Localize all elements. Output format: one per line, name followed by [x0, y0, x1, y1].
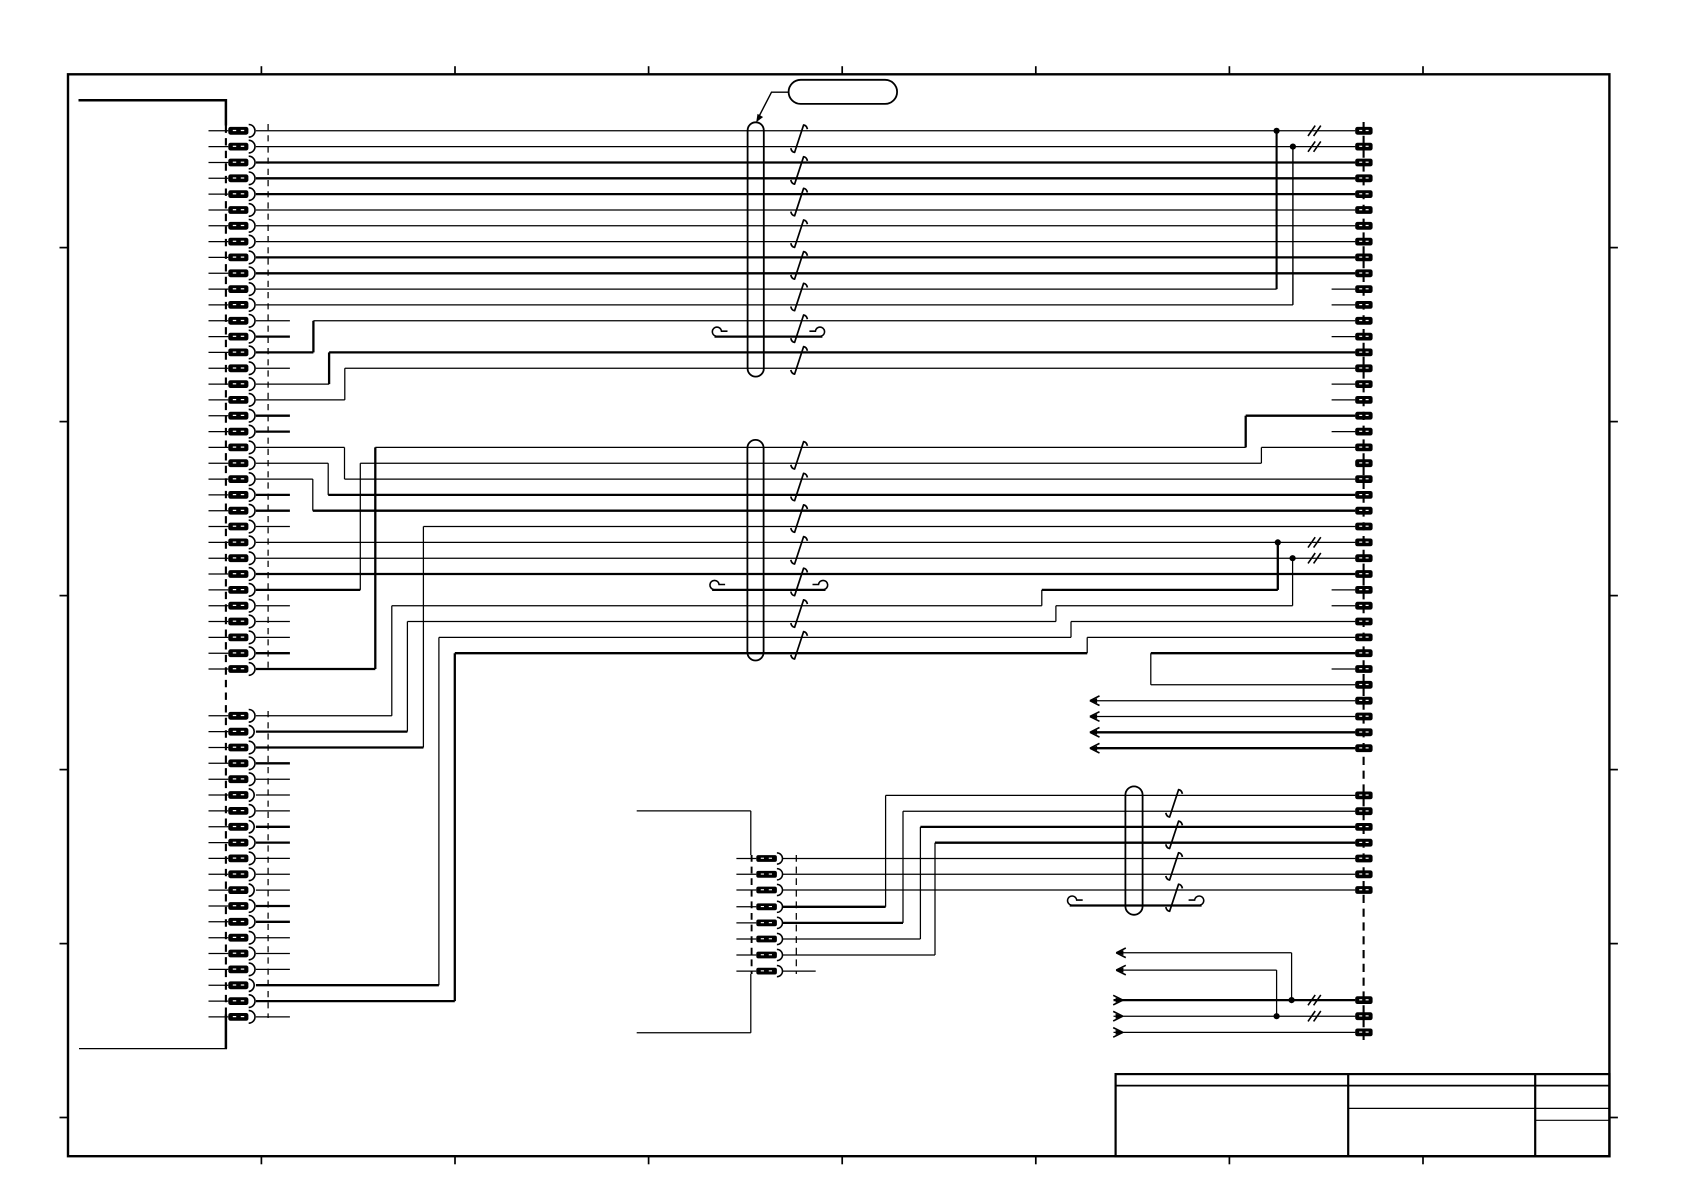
wire band row 44 to J2 pin 44: [935, 842, 1355, 844]
connector J1 pin 10: [209, 267, 256, 280]
riser row 31 to junction row 28: [1292, 558, 1294, 606]
riser to J2 pin 19: [1245, 416, 1247, 448]
right border zone tick 3: [1609, 595, 1618, 597]
bundle W2 pair slash 1: [791, 442, 808, 469]
wire net N28 (row 28 full): [256, 557, 1355, 559]
bottom border zone tick 7: [1422, 1156, 1424, 1164]
connector J1 body dashed line: [225, 126, 227, 1015]
wire lower B: [1117, 969, 1277, 971]
arrowhead row 40: [1090, 743, 1100, 753]
riser J3 pin 7 to band row 44: [934, 843, 936, 955]
connector J1 pin 3: [209, 156, 256, 169]
connector J1 pin 21: [209, 441, 256, 454]
stub at J1 pin 50: [256, 937, 290, 939]
connector J1 pin 30: [209, 584, 256, 597]
stub at J1 pin 52: [256, 968, 290, 970]
bundle W2 pair slash 4: [791, 537, 808, 564]
connector J2 pin 44: [1355, 839, 1372, 847]
wire from J3 pin 5: [782, 922, 903, 924]
connector J2 pin 5: [1355, 190, 1372, 198]
twist mark row 28: [1308, 553, 1321, 563]
connector J2 pin 35: [1355, 665, 1372, 673]
left border zone tick 5: [60, 943, 69, 945]
stub at J3 pin 8: [782, 970, 815, 972]
stub at J1 pin 32: [256, 621, 290, 623]
connector J1 pin 44: [209, 836, 256, 849]
wire row 31 east segment: [1056, 605, 1293, 607]
connector J2 pin 3: [1355, 159, 1372, 167]
stub at J2 pin 12: [1332, 304, 1356, 306]
stub at J1 pin 46: [256, 873, 290, 875]
wire net N18 from J1 pin 18: [256, 399, 345, 401]
connector J1 pin 1: [209, 125, 256, 138]
wire net N2 (row 2 full): [256, 146, 1355, 148]
connector J1 pin 51: [209, 947, 256, 960]
connector J3 pin 5: [736, 917, 782, 928]
connector J1 pin 17: [209, 378, 256, 391]
stub at J1 pin 42: [256, 810, 290, 812]
connector J2 pin 41: [1355, 792, 1372, 800]
bundle W3 pair slash 4: [1166, 884, 1183, 911]
wire from J3 pin 6: [782, 938, 920, 940]
title block divider 2: [1534, 1074, 1536, 1156]
stub at J1 pin 26: [256, 526, 290, 528]
stub at J1 pin 43: [256, 826, 290, 828]
jog riser net N21 down to row 23: [344, 447, 346, 479]
shield pigtail wire W2 (row 30): [710, 580, 828, 590]
connector J1 pin 34: [209, 647, 255, 660]
stub at J1 pin 25: [256, 510, 290, 512]
staircase riser row 34 to row 33: [1086, 637, 1088, 653]
bundle W1 pair slash 3: [791, 188, 808, 216]
bus exit wire bottom-left: [79, 1048, 227, 1050]
wire net N13 east segment (row 13): [313, 320, 1355, 322]
connector J1 pin 12: [209, 299, 256, 312]
top border zone tick 1: [260, 66, 262, 74]
connector J1 pin 20: [209, 425, 256, 438]
connector J1 pin 23: [209, 473, 256, 486]
wire row 34 west segment (from J1 pin 53): [455, 652, 1087, 654]
stub at J2 pin 20: [1332, 431, 1356, 433]
connector J2 pin 50: [1355, 1029, 1372, 1037]
wire net N15 from J1 pin 15: [256, 351, 314, 353]
stub at J1 pin 49: [256, 921, 290, 923]
stub at J1 pin 13: [256, 320, 290, 322]
wire out E to J2 pin 50: [1114, 1031, 1356, 1033]
connector J1 pin 11: [209, 283, 256, 296]
wire stub upper-left of J3: [637, 810, 751, 812]
connector J2 pin 43: [1355, 823, 1372, 831]
bundle W1 pair slash 5: [791, 252, 808, 280]
riser J1 pin 54 up to row 34: [454, 653, 456, 1001]
junction dot row 2: [1290, 144, 1296, 150]
stub at J1 pin 55: [256, 1016, 290, 1018]
wire row 32 west segment (from J1 pin 37): [407, 621, 1056, 623]
J3 shield bus left vertical upper segment: [750, 811, 752, 855]
connector J2 pin 2: [1355, 143, 1372, 151]
wire row 26 east segment to J2 pin 26: [423, 526, 1355, 528]
bundle W2 pair slash 2: [791, 473, 808, 500]
connector J2 pin 25: [1355, 507, 1372, 515]
arrowhead row 37: [1090, 696, 1100, 706]
connector J1 pin 15: [209, 346, 256, 359]
twist mark row 1: [1308, 126, 1321, 136]
wire lower A: [1117, 952, 1292, 954]
connector J1 pin 22: [209, 457, 256, 470]
connector J2 pin 38: [1355, 713, 1372, 721]
connector J3 inner dashed line: [795, 855, 797, 974]
arrowhead lower A: [1116, 948, 1126, 958]
connector J2 pin 4: [1355, 174, 1372, 182]
riser J3 pin 5 to band row 42: [902, 811, 904, 923]
staircase riser row 32 to row 31: [1055, 606, 1057, 622]
connector J2 pin 12: [1355, 301, 1372, 309]
wire net N15 east segment (row 15): [329, 351, 1355, 353]
connector J3 pin 7: [736, 949, 782, 960]
bottom border zone tick 3: [648, 1156, 650, 1164]
connector J1 pin 49: [209, 916, 255, 929]
wire net N12 (row 12 to riser): [256, 304, 1293, 306]
connector J2 pin 46: [1355, 870, 1372, 878]
wire net N17 from J1 pin 17: [256, 383, 329, 385]
wire net N1 (row 1 full): [256, 130, 1355, 132]
twist mark net C: [1308, 995, 1321, 1005]
connector J1 pin 5: [209, 188, 255, 201]
stub at J1 pin 34: [256, 652, 290, 654]
right border zone tick 4: [1609, 769, 1618, 771]
connector J2 pin 30: [1355, 586, 1372, 594]
cable bundle W1 oval: [748, 122, 764, 376]
connector J1 pin 48: [209, 900, 255, 913]
cable bundle W3 oval: [1125, 786, 1142, 914]
riser net N11 up to row 1: [1276, 131, 1278, 289]
connector J3 body dashed line: [751, 855, 753, 974]
connector J2 pin 39: [1355, 728, 1372, 736]
stub at J2 pin 17: [1332, 383, 1356, 385]
arrowhead out D: [1113, 1011, 1123, 1021]
stub at J1 pin 48: [256, 905, 290, 907]
connector J2 pin 22: [1355, 459, 1372, 467]
connector J1 pin 52: [209, 963, 256, 976]
bundle W1 pair slash 1: [791, 125, 808, 152]
wire net N11 (row 11 to riser): [256, 288, 1277, 290]
bundle W1 pair slash 4: [791, 220, 808, 247]
stub at J2 pin 35: [1332, 668, 1356, 670]
connector J1 pin 31: [209, 599, 256, 612]
riser J3 pin 6 to band row 43: [919, 827, 921, 939]
wire row 34 east segment to J2 pin 34: [1151, 652, 1356, 654]
wire row 24 east segment to J2 pin 24: [328, 494, 1355, 496]
connector J2 pin 49: [1355, 1012, 1372, 1020]
bottom border zone tick 4: [841, 1156, 843, 1164]
junction dot row 28: [1290, 555, 1296, 561]
title block right cell rule 2: [1535, 1119, 1609, 1121]
right border zone tick 6: [1609, 1117, 1618, 1119]
bundle W2 pair slash 3: [791, 505, 808, 532]
wire J3 pin 3 to J2 pin 47: [782, 889, 1355, 891]
stub at J1 pin 20: [256, 430, 290, 432]
connector J1 pin 16: [209, 362, 256, 375]
bus entry wire top-left: [79, 99, 228, 102]
riser lower B to junction: [1276, 970, 1278, 1016]
stub at J1 pin 41: [256, 794, 290, 796]
bundle W3 pair slash 3: [1166, 853, 1183, 880]
top border zone tick 3: [648, 66, 650, 74]
wire net N3 (row 3 full): [256, 161, 1355, 163]
wire net N17 east segment (row 16): [345, 367, 1356, 369]
connector J2 pin 11: [1355, 285, 1372, 293]
cable bundle W2 oval: [747, 440, 763, 661]
connector J2 pin 45: [1355, 855, 1372, 863]
connector J2 pin 13: [1355, 317, 1372, 325]
wire stub lower-left of J3: [637, 1032, 751, 1034]
wire band row 42 to J2 pin 42: [903, 810, 1355, 812]
wire row 37 to J2 pin 37: [1091, 700, 1356, 702]
wire J3 pin 2 to J2 pin 46: [782, 873, 1355, 875]
shield pigtail wire W3: [1068, 896, 1204, 906]
riser to J2 pin 21: [1260, 447, 1262, 463]
wire row 38 to J2 pin 38: [1091, 716, 1356, 718]
connector J1 pin 54: [209, 995, 256, 1008]
riser row 30 to junction row 27: [1277, 542, 1279, 590]
U-link riser rows 34-36: [1150, 653, 1152, 685]
wire net N10 (row 10 full): [256, 272, 1355, 274]
connector J1 pin 9: [209, 251, 256, 264]
jog riser net N22 down to row 24: [327, 463, 329, 495]
wire from J1 pin 54: [256, 1000, 455, 1002]
bundle W3 pair slash 1: [1166, 790, 1183, 817]
wire net N7 (row 7 full): [256, 225, 1355, 227]
stub at J2 pin 14: [1332, 336, 1356, 338]
stub at J1 pin 45: [256, 857, 290, 859]
junction dot row 27: [1275, 539, 1281, 545]
connector J1 pin 27: [209, 536, 256, 549]
connector J1 pin 50: [209, 931, 256, 944]
connector J1 pin 47: [209, 884, 255, 897]
bottom border zone tick 1: [260, 1156, 262, 1164]
top border zone tick 4: [841, 66, 843, 74]
connector J3 pin 1: [736, 853, 782, 864]
stub at J1 pin 33: [256, 636, 290, 638]
connector J2 pin 21: [1355, 444, 1372, 452]
wire trunk row 21 (from J1 pin 35): [375, 446, 1245, 448]
wire net N19 east segment to J2 pin 19: [1246, 415, 1356, 417]
connector J1 pin 42: [209, 805, 256, 818]
wire row 25 east segment to J2 pin 25: [313, 510, 1356, 512]
wire from J3 pin 4: [782, 906, 885, 908]
connector J2 pin 26: [1355, 523, 1372, 531]
connector J1 pin 53: [209, 979, 255, 992]
title block middle cell rule: [1348, 1107, 1535, 1109]
connector J1 pin 18: [209, 394, 256, 407]
stub at J2 pin 11: [1332, 288, 1356, 290]
jog riser net N18 to row 16: [344, 368, 346, 400]
connector J1 bottom exit segment: [225, 1015, 228, 1049]
bundle W1 pair slash 2: [791, 157, 808, 184]
callout leader line: [759, 92, 788, 116]
wire band row 41 to J2 pin 41: [886, 794, 1356, 796]
stub at J1 pin 24: [256, 494, 290, 496]
title block right cell rule 1: [1535, 1107, 1609, 1109]
connector J1 pin 33: [209, 631, 256, 644]
connector J1 pin 13: [209, 315, 256, 328]
stub at J1 pin 14: [256, 335, 290, 337]
connector J3 pin 2: [736, 869, 782, 880]
connector J2 pin 29: [1355, 570, 1372, 578]
wire row 39 to J2 pin 39: [1091, 731, 1356, 733]
connector J2 pin 15: [1355, 349, 1372, 357]
right border zone tick 1: [1609, 247, 1618, 249]
staircase riser row 33 to row 32: [1070, 622, 1072, 638]
wire net N5 (row 5 full): [256, 193, 1355, 195]
shield pigtail wire W1 (row 14): [712, 327, 824, 337]
left border zone tick 1: [60, 247, 69, 249]
wire row 21 east segment to J2 pin 21: [1261, 446, 1355, 448]
bundle W2 pair slash 5: [791, 568, 808, 596]
connector J2 pin 20: [1355, 428, 1372, 436]
wire net N27 (row 27 full): [256, 541, 1355, 543]
wire net N9 (row 9 full): [256, 256, 1355, 258]
connector J1 pin 6: [209, 204, 256, 217]
title block outer box: [1116, 1074, 1610, 1156]
stub at J1 pin 40: [256, 778, 290, 780]
stub at J1 pin 44: [256, 841, 290, 843]
connector J2 pin 40: [1355, 744, 1372, 752]
top border zone tick 7: [1422, 66, 1424, 74]
connector J2 pin 32: [1355, 618, 1372, 626]
twist mark row 27: [1308, 537, 1321, 547]
stub at J1 pin 19: [256, 415, 290, 417]
riser net N12 up to row 2: [1292, 147, 1294, 305]
connector J1 pin 4: [209, 172, 256, 185]
wire net N6 (row 6 full): [256, 209, 1355, 211]
staircase riser row 31 to row 30: [1041, 590, 1043, 606]
connector J3 pin 3: [736, 884, 782, 895]
wire J3 pin 1 to J2 pin 45: [782, 858, 1355, 860]
wire net N4 (row 4 full): [256, 177, 1355, 179]
wire net N8 (row 8 full): [256, 241, 1355, 243]
arrowhead out C: [1113, 995, 1123, 1005]
connector J2 pin 8: [1355, 238, 1372, 246]
connector J1 pin 45: [209, 852, 256, 865]
callout leader arrowhead: [756, 114, 763, 122]
connector J2 pin 28: [1355, 554, 1372, 562]
wire out D to J2 pin 49: [1114, 1015, 1356, 1017]
connector J2 pin 17: [1355, 380, 1372, 388]
J3 shield bus left vertical lower segment: [750, 974, 752, 1033]
connector J2 pin 34: [1355, 649, 1372, 657]
connector J2 pin 24: [1355, 491, 1372, 499]
wire from J1 pin 53: [256, 984, 439, 986]
wire from J1 pin 36: [256, 715, 392, 717]
connector J2 pin 47: [1355, 886, 1372, 894]
title block divider 1: [1347, 1074, 1349, 1156]
wire from J3 pin 7: [782, 954, 935, 956]
jog riser net N17 to row 15: [328, 352, 330, 384]
riser J1 pin 38 up to row 26: [422, 527, 424, 748]
connector J1 pin 55: [209, 1011, 256, 1024]
connector J2 pin 14: [1355, 333, 1372, 341]
connector J1 pin 39: [209, 757, 256, 770]
top border zone tick 5: [1035, 66, 1037, 74]
bottom border zone tick 2: [454, 1156, 456, 1164]
stub at J2 pin 30: [1332, 589, 1356, 591]
connector J1 pin 14: [209, 330, 256, 343]
bundle W1 pair slash 8: [791, 347, 808, 375]
connector J2 pin 16: [1355, 364, 1372, 372]
stub at J1 pin 16: [256, 367, 290, 369]
connector J2 pin 48: [1355, 996, 1372, 1004]
bundle W1 pair slash 6: [791, 283, 808, 310]
connector J3 pin 6: [736, 933, 782, 944]
top border zone tick 2: [454, 66, 456, 74]
bundle W2 pair slash 6: [791, 600, 808, 627]
connector J1 top entry segment: [225, 99, 228, 126]
left border zone tick 3: [60, 595, 69, 597]
connector J1 pin 32: [209, 615, 256, 628]
riser net N35 up to trunk row 21: [374, 447, 376, 669]
wire net N23 from J1 pin 23: [256, 478, 313, 480]
right border zone tick 5: [1609, 943, 1618, 945]
junction dot net C: [1289, 997, 1295, 1003]
connector J2 pin 36: [1355, 681, 1372, 689]
connector J1 inner dashed line lower: [267, 711, 269, 1018]
right border zone tick 2: [1609, 421, 1618, 423]
connector J1 pin 8: [209, 235, 255, 248]
riser J1 pin 36 up to row 31: [391, 606, 393, 716]
connector J2 pin 18: [1355, 396, 1372, 404]
stub at J1 pin 31: [256, 605, 290, 607]
connector J1 pin 19: [209, 409, 256, 422]
connector J1 pin 46: [209, 868, 256, 881]
connector J2 pin 7: [1355, 222, 1372, 230]
top border zone tick 6: [1228, 66, 1230, 74]
riser J3 pin 4 to band row 41: [885, 795, 887, 906]
left border zone tick 6: [60, 1117, 69, 1119]
left border zone tick 2: [60, 421, 69, 423]
cable W1 callout balloon: [789, 80, 898, 104]
twist mark row 2: [1308, 141, 1321, 151]
connector J1 pin 43: [209, 821, 255, 834]
connector J2 pin 33: [1355, 634, 1372, 642]
wire net N22 from J1 pin 22: [256, 462, 328, 464]
title block header rule: [1116, 1085, 1610, 1087]
connector J1 pin 24: [209, 489, 256, 502]
wire from J1 pin 37: [256, 730, 408, 732]
riser lower A to junction: [1291, 953, 1293, 1000]
wire row 33 east segment to J2 pin 33: [1087, 636, 1355, 638]
wire row 33 west segment (from J1 pin 52): [439, 636, 1071, 638]
bundle W3 pair slash 2: [1166, 821, 1183, 848]
twist mark net D: [1308, 1011, 1321, 1021]
connector J2 pin 1: [1355, 127, 1372, 135]
connector J1 pin 41: [209, 789, 255, 802]
connector J2 pin 31: [1355, 602, 1372, 610]
connector J1 pin 2: [209, 140, 255, 153]
connector J2 pin 37: [1355, 697, 1372, 705]
connector J2 pin 9: [1355, 254, 1372, 262]
bottom border zone tick 5: [1035, 1156, 1037, 1164]
connector J2 pin 19: [1355, 412, 1372, 420]
wire net N29 (row 29 full): [256, 573, 1355, 575]
wire from J1 pin 38: [256, 746, 424, 748]
connector J1 pin 28: [209, 552, 256, 565]
bundle W1 pair slash 7: [791, 315, 808, 342]
connector J3 pin 4: [736, 901, 782, 912]
connector J2 pin 42: [1355, 807, 1372, 815]
connector J2 body dashed line: [1363, 122, 1365, 1040]
stub at J2 pin 31: [1332, 605, 1356, 607]
